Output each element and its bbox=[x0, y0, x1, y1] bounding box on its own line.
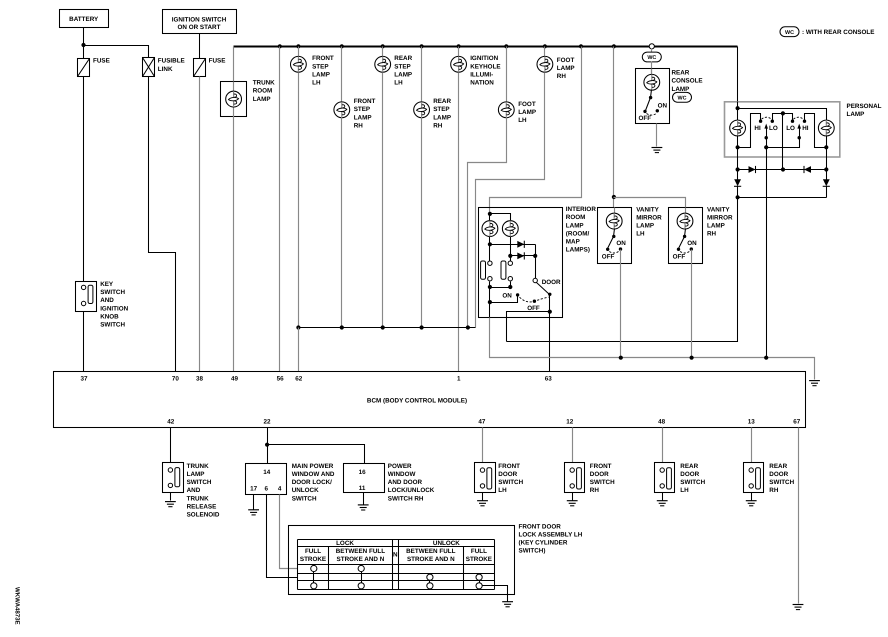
svg-text:WINDOW AND: WINDOW AND bbox=[292, 471, 335, 478]
svg-text:OFF: OFF bbox=[673, 254, 686, 261]
wire pin 17 to ground bbox=[253, 495, 255, 510]
diode D4 bbox=[826, 170, 828, 180]
node bus junction foot lamp LH bbox=[504, 44, 508, 48]
svg-text:NATION: NATION bbox=[470, 80, 494, 87]
wiper right with arrow bbox=[799, 129, 801, 138]
wire personal chain down to interior link bbox=[507, 198, 738, 342]
node bus junction foot lamp RH bbox=[543, 44, 547, 48]
svg-text:6: 6 bbox=[265, 486, 269, 493]
vanity mirror lamp LH box bbox=[598, 208, 632, 264]
svg-text:LAMP: LAMP bbox=[566, 222, 584, 229]
svg-text:LAMP: LAMP bbox=[636, 223, 654, 230]
svg-text:: WITH REAR CONSOLE: : WITH REAR CONSOLE bbox=[802, 29, 874, 36]
foot lamp LH bbox=[506, 47, 508, 118]
wire personal feed bbox=[737, 102, 739, 121]
ground rear door switch LH bbox=[657, 501, 668, 506]
svg-text:WKWA4873E: WKWA4873E bbox=[14, 587, 21, 625]
node bus junction rear step lamp LH bbox=[381, 44, 385, 48]
key cylinder switch table bbox=[298, 539, 495, 541]
wire trunk lamp switch to ground bbox=[170, 493, 172, 501]
svg-text:LO: LO bbox=[786, 125, 795, 132]
node pivot branch bbox=[548, 310, 552, 314]
svg-text:FRONT: FRONT bbox=[354, 98, 376, 105]
contact ON vanity LH bbox=[619, 247, 622, 250]
wire bus drop front step lamp LH bbox=[298, 47, 300, 57]
wire lamp collector rail to BCM pin 62 bbox=[299, 327, 476, 329]
wire BCM pin 22 to main power window switch bbox=[267, 428, 269, 464]
wire BCM to rear door switch LH bbox=[662, 428, 664, 463]
wire pivot to BCM pin 63 bbox=[549, 295, 551, 372]
contact OFF rear console bbox=[643, 110, 646, 113]
svg-text:LH: LH bbox=[636, 231, 645, 238]
wire fuse F1 to key switch, pin 37 bbox=[83, 77, 85, 282]
svg-text:RH: RH bbox=[433, 122, 443, 129]
svg-text:12: 12 bbox=[566, 418, 574, 425]
node ground rail personal wiper bbox=[764, 356, 768, 360]
power window and door lock unlock switch RH bbox=[344, 464, 385, 493]
svg-text:STROKE: STROKE bbox=[466, 556, 492, 563]
svg-text:LH: LH bbox=[498, 487, 507, 494]
svg-text:SWITCH: SWITCH bbox=[498, 479, 523, 486]
lamp front step lamp LH bbox=[298, 57, 300, 73]
wire pin 4 to key cylinder switch bbox=[280, 495, 298, 569]
svg-text:KEYHOLE: KEYHOLE bbox=[470, 63, 500, 70]
wire bus to interior room lamp box bbox=[490, 47, 582, 214]
wire personal LH exit to diode row bbox=[737, 158, 739, 170]
wire rear door switch LH to ground bbox=[662, 493, 664, 501]
map lamp switch 1 bbox=[488, 261, 492, 265]
svg-text:(ROOM/: (ROOM/ bbox=[566, 230, 590, 237]
svg-text:VANITY: VANITY bbox=[636, 206, 659, 213]
svg-text:N: N bbox=[393, 552, 398, 559]
svg-text:STEP: STEP bbox=[433, 106, 449, 113]
wire to ON contact bbox=[490, 296, 518, 303]
wire foot lamp RH to rail end bbox=[476, 73, 545, 328]
svg-text:OFF: OFF bbox=[602, 254, 615, 261]
node bus junction ignition keyhole illumination lamp bbox=[457, 44, 461, 48]
svg-text:LINK: LINK bbox=[158, 66, 173, 73]
svg-text:37: 37 bbox=[80, 375, 88, 382]
wire front step lamp LH to rail bbox=[298, 73, 300, 328]
rotary switch pivot interior bbox=[548, 293, 551, 296]
svg-text:70: 70 bbox=[172, 375, 180, 382]
wire LH staircase to HI contact bbox=[738, 114, 761, 148]
svg-text:LOCK: LOCK bbox=[336, 540, 354, 547]
node interior feed junction bbox=[489, 214, 491, 221]
interior room lamp bulb 2 bbox=[502, 221, 518, 237]
svg-text:LH: LH bbox=[680, 487, 689, 494]
rear door switch LH bbox=[655, 463, 675, 493]
wire pivot branch to personal chain bbox=[507, 312, 550, 342]
ground BCM pin 67 bbox=[793, 605, 804, 610]
svg-text:WC: WC bbox=[678, 96, 687, 102]
wire bus drop ignition keyhole illumination lamp bbox=[458, 47, 460, 57]
trunk lamp switch and trunk release solenoid bbox=[163, 463, 184, 493]
switch lever interior bbox=[537, 283, 550, 295]
node bus connector with rear console bbox=[649, 44, 654, 49]
map lamp switch 2 bbox=[508, 261, 512, 265]
node rail junction front step lamp RH bbox=[340, 325, 344, 329]
diode D3 bbox=[737, 170, 739, 180]
wire bus to vanity mirror lamp LH bbox=[613, 47, 615, 208]
svg-text:VANITY: VANITY bbox=[707, 206, 730, 213]
svg-text:13: 13 bbox=[748, 418, 756, 425]
svg-text:FRONT: FRONT bbox=[498, 463, 520, 470]
node rail junction foot lamp LH bbox=[466, 325, 470, 329]
svg-text:LAMP: LAMP bbox=[847, 111, 865, 118]
svg-text:4: 4 bbox=[278, 486, 282, 493]
svg-text:WC: WC bbox=[647, 55, 656, 61]
svg-text:LH: LH bbox=[312, 80, 321, 87]
node personal lamp LH bottom bbox=[737, 136, 739, 158]
wire bus to trunk room lamp bbox=[233, 47, 235, 82]
node bus junction rear step lamp RH bbox=[420, 44, 424, 48]
wire key switch to BCM pin 37 bbox=[83, 312, 85, 372]
svg-text:OFF: OFF bbox=[639, 115, 652, 122]
svg-text:FRONT: FRONT bbox=[590, 463, 612, 470]
svg-text:LAMP: LAMP bbox=[433, 114, 451, 121]
svg-text:LAMP: LAMP bbox=[672, 86, 690, 93]
svg-text:SWITCH: SWITCH bbox=[292, 495, 317, 502]
wire diode row bbox=[738, 169, 827, 171]
svg-text:STROKE: STROKE bbox=[300, 556, 326, 563]
svg-text:DOOR LOCK/: DOOR LOCK/ bbox=[292, 479, 332, 486]
svg-text:42: 42 bbox=[167, 418, 175, 425]
wire key cylinder to ground bbox=[483, 586, 508, 602]
svg-text:ILLUMI-: ILLUMI- bbox=[470, 71, 493, 78]
svg-text:SOLENOID: SOLENOID bbox=[187, 512, 220, 519]
svg-text:SWITCH: SWITCH bbox=[590, 479, 615, 486]
svg-text:FULL: FULL bbox=[305, 548, 321, 555]
svg-text:HI: HI bbox=[754, 125, 761, 132]
wire rear step lamp LH to rail bbox=[382, 73, 384, 328]
wire interior top to map lamp bbox=[490, 214, 511, 221]
main power window and door lock unlock switch bbox=[246, 464, 287, 495]
svg-text:LAMP: LAMP bbox=[557, 65, 575, 72]
svg-text:HI: HI bbox=[802, 125, 809, 132]
node rail junction rear step lamp LH bbox=[381, 325, 385, 329]
node rail junction front step lamp LH bbox=[296, 325, 300, 329]
wire vanity LH switch output to ground rail bbox=[620, 250, 622, 358]
wire fuse F2 to BCM pin 38 bbox=[199, 77, 201, 372]
svg-text:KEY: KEY bbox=[100, 281, 114, 288]
wire pin 6 to key cylinder switch bbox=[267, 495, 298, 578]
svg-text:LAMP: LAMP bbox=[354, 114, 372, 121]
dashed throw arc interior bbox=[520, 297, 549, 302]
diode D6 bbox=[517, 253, 524, 260]
node ground rail vanity LH bbox=[619, 356, 623, 360]
svg-text:AND: AND bbox=[100, 297, 114, 304]
lamp front step lamp RH bbox=[341, 102, 343, 118]
svg-text:FOOT: FOOT bbox=[557, 57, 575, 64]
wire branch to power window switch RH bbox=[268, 445, 365, 464]
svg-text:62: 62 bbox=[295, 375, 303, 382]
wire connector to WC oval bbox=[651, 49, 653, 53]
vanity mirror lamp RH bulb bbox=[685, 208, 687, 214]
svg-text:22: 22 bbox=[263, 418, 271, 425]
personal lamp box bbox=[725, 102, 840, 157]
front door lock assembly box bbox=[289, 526, 515, 595]
key cylinder contacts lock between bbox=[358, 565, 364, 571]
wire personal RH exit to diode row bbox=[826, 158, 828, 170]
svg-text:UNLOCK: UNLOCK bbox=[292, 487, 319, 494]
svg-text:REAR: REAR bbox=[672, 70, 690, 77]
svg-text:LH: LH bbox=[394, 80, 403, 87]
wire junction to fusible link bbox=[84, 46, 149, 58]
node bus junction vanity mirror feed bbox=[612, 44, 616, 48]
vanity mirror lamp LH bulb bbox=[614, 208, 616, 214]
svg-text:ROOM: ROOM bbox=[253, 88, 273, 95]
wire rear console switch to ground bbox=[656, 124, 658, 147]
svg-text:MIRROR: MIRROR bbox=[636, 215, 662, 222]
personal lamp bulb RH bbox=[818, 120, 834, 136]
battery B1 bbox=[60, 10, 109, 28]
node bus junction front step lamp RH bbox=[340, 44, 344, 48]
ignition switch box bbox=[163, 10, 237, 34]
wire bus to BCM pin 56 bbox=[279, 47, 281, 372]
svg-text:RH: RH bbox=[557, 73, 567, 80]
wire BCM to rear door switch RH bbox=[751, 428, 753, 463]
interior room lamp box bbox=[479, 208, 563, 318]
wire BCM to front door switch RH bbox=[572, 428, 574, 463]
svg-text:WINDOW: WINDOW bbox=[388, 471, 416, 478]
key cylinder contacts unlock between bbox=[427, 574, 433, 580]
wire battery to junction bbox=[83, 28, 85, 59]
connector WC oval bbox=[642, 52, 661, 62]
wire bulb2 to diode row 2 bbox=[510, 237, 512, 262]
dashed arc right switch bbox=[793, 117, 803, 119]
wire BCM pin 42 to trunk lamp switch bbox=[170, 428, 172, 463]
svg-text:LAMP: LAMP bbox=[707, 223, 725, 230]
svg-text:67: 67 bbox=[793, 418, 801, 425]
rear door switch RH bbox=[744, 463, 764, 493]
svg-text:38: 38 bbox=[196, 375, 204, 382]
ground main power window switch bbox=[248, 510, 259, 515]
svg-text:SWITCH: SWITCH bbox=[100, 289, 125, 296]
contact OFF vanity RH bbox=[677, 248, 680, 251]
svg-text:LO: LO bbox=[769, 125, 778, 132]
svg-text:(KEY CYLINDER: (KEY CYLINDER bbox=[519, 540, 568, 547]
svg-text:TRUNK: TRUNK bbox=[187, 495, 209, 502]
lamp rear step lamp RH bbox=[421, 102, 423, 118]
wire center to diode row bbox=[782, 114, 784, 170]
svg-text:STEP: STEP bbox=[312, 63, 328, 70]
interior room lamp bulb 1 bbox=[482, 221, 498, 237]
svg-text:BATTERY: BATTERY bbox=[69, 16, 99, 23]
svg-text:ON OR START: ON OR START bbox=[178, 24, 221, 31]
svg-text:DOOR: DOOR bbox=[590, 471, 609, 478]
contact LO left bbox=[771, 120, 774, 123]
ground key cylinder switch bbox=[502, 602, 513, 607]
node diode join interior bbox=[533, 254, 537, 258]
wire front step lamp RH to rail bbox=[341, 118, 343, 328]
wire ignition keyhole illumination to BCM pin 1 bbox=[458, 73, 460, 372]
lamp ignition keyhole illumination lamp bbox=[458, 57, 460, 73]
dashed throw arc vanity RH bbox=[680, 251, 690, 253]
dashed throw arc vanity LH bbox=[609, 251, 619, 253]
svg-text:CONSOLE: CONSOLE bbox=[672, 78, 703, 85]
wire BCM pin 67 to ground bbox=[798, 428, 800, 604]
svg-text:STROKE AND N: STROKE AND N bbox=[407, 556, 455, 563]
wire interior switch chain to ground rail bbox=[489, 303, 491, 318]
svg-text:KNOB: KNOB bbox=[100, 313, 119, 320]
wire bulb1 to diode row 1 bbox=[489, 237, 491, 262]
ground trunk lamp switch bbox=[165, 502, 176, 507]
wire foot lamp LH to rail bbox=[468, 118, 507, 328]
svg-text:MAP: MAP bbox=[566, 239, 580, 246]
svg-text:FUSE: FUSE bbox=[209, 57, 226, 64]
wire bulb to pivot LH bbox=[614, 229, 615, 237]
svg-text:17: 17 bbox=[250, 486, 258, 493]
svg-text:63: 63 bbox=[545, 375, 553, 382]
legend WC oval bbox=[780, 27, 799, 37]
svg-text:SWITCH: SWITCH bbox=[680, 479, 705, 486]
svg-text:AND DOOR: AND DOOR bbox=[388, 479, 423, 486]
node bus junction interior room lamp bbox=[579, 44, 583, 48]
node center junction bbox=[781, 111, 785, 115]
contact ON rear console bbox=[656, 109, 659, 112]
svg-text:MIRROR: MIRROR bbox=[707, 215, 733, 222]
wire pin 11 to ground bbox=[363, 493, 365, 505]
svg-text:BETWEEN FULL: BETWEEN FULL bbox=[336, 548, 385, 555]
wire front door switch RH to ground bbox=[572, 493, 574, 501]
ground power window switch RH bbox=[358, 505, 369, 510]
svg-text:LAMP: LAMP bbox=[394, 71, 412, 78]
svg-text:BCM (BODY CONTROL MODULE): BCM (BODY CONTROL MODULE) bbox=[367, 397, 467, 404]
rear console lamp box bbox=[636, 69, 670, 124]
wire bus drop front step lamp RH bbox=[341, 47, 343, 102]
svg-text:FRONT: FRONT bbox=[312, 55, 334, 62]
rear console lamp L2 bbox=[651, 69, 653, 75]
fusible link FL bbox=[143, 58, 155, 77]
svg-text:LH: LH bbox=[518, 117, 527, 124]
wire body ground rail bbox=[621, 358, 815, 380]
switch lever vanity LH bbox=[608, 237, 614, 249]
svg-text:LAMP: LAMP bbox=[253, 96, 271, 103]
switch lever vanity RH bbox=[679, 237, 685, 249]
wire RH staircase to HI contact bbox=[805, 114, 827, 148]
svg-text:LOCK ASSEMBLY LH: LOCK ASSEMBLY LH bbox=[519, 532, 583, 539]
svg-text:SWITCH: SWITCH bbox=[769, 479, 794, 486]
svg-text:11: 11 bbox=[359, 485, 366, 492]
svg-text:UNLOCK: UNLOCK bbox=[433, 540, 460, 547]
contact OFF vanity LH bbox=[606, 248, 609, 251]
svg-text:PERSONAL: PERSONAL bbox=[847, 103, 882, 110]
contact OFF interior bbox=[533, 300, 536, 303]
switch lever rear console bbox=[646, 98, 651, 111]
wiper left with arrow bbox=[766, 129, 768, 138]
svg-text:AND: AND bbox=[187, 487, 201, 494]
svg-text:48: 48 bbox=[658, 418, 666, 425]
svg-text:FRONT DOOR: FRONT DOOR bbox=[519, 523, 562, 530]
wire bus drop rear step lamp LH bbox=[382, 47, 384, 57]
contact LO right bbox=[791, 120, 794, 123]
svg-text:FULL: FULL bbox=[471, 548, 487, 555]
front door switch LH bbox=[475, 463, 496, 493]
svg-text:TRUNK: TRUNK bbox=[187, 463, 209, 470]
svg-text:SWITCH): SWITCH) bbox=[519, 548, 546, 555]
contact DOOR interior bbox=[533, 278, 537, 282]
svg-text:TRUNK: TRUNK bbox=[253, 80, 275, 87]
svg-text:STEP: STEP bbox=[394, 63, 410, 70]
front door switch RH bbox=[565, 463, 585, 493]
svg-text:16: 16 bbox=[359, 469, 367, 476]
wire bulb to pivot RH bbox=[685, 229, 686, 237]
wire bus to personal lamp bbox=[737, 47, 739, 102]
svg-text:STROKE AND N: STROKE AND N bbox=[337, 556, 385, 563]
ground rear console lamp bbox=[652, 148, 663, 153]
svg-text:47: 47 bbox=[478, 418, 486, 425]
svg-text:RH: RH bbox=[769, 487, 779, 494]
wire trunk room lamp to BCM pin 49 bbox=[233, 117, 235, 372]
wire front door switch LH to ground bbox=[482, 493, 484, 501]
wire diode join bbox=[738, 197, 827, 199]
svg-text:SWITCH: SWITCH bbox=[187, 479, 212, 486]
node personal lamp RH bottom bbox=[826, 136, 828, 158]
trunk room lamp L1 bbox=[221, 82, 247, 117]
node vanity feed split bbox=[612, 195, 616, 199]
svg-text:ROOM: ROOM bbox=[566, 214, 586, 221]
BCM body control module bbox=[54, 372, 806, 428]
svg-text:LAMP: LAMP bbox=[187, 471, 205, 478]
wire vanity RH switch output to ground rail bbox=[691, 250, 693, 358]
svg-text:LAMPS): LAMPS) bbox=[566, 247, 590, 254]
wire personal top rail bbox=[738, 109, 827, 121]
contact HI left bbox=[759, 120, 762, 123]
ground front door switch LH bbox=[477, 501, 488, 506]
key cylinder contacts lock full stroke bbox=[311, 565, 317, 571]
svg-text:ON: ON bbox=[658, 102, 668, 109]
wire bus drop rear step lamp RH bbox=[421, 47, 423, 102]
diode D2 bbox=[804, 166, 811, 173]
svg-text:INTERIOR: INTERIOR bbox=[566, 206, 597, 213]
node battery junction bbox=[81, 43, 85, 47]
svg-text:14: 14 bbox=[263, 469, 271, 476]
node bus junction front step lamp LH bbox=[296, 44, 300, 48]
node interior ON junction bbox=[488, 300, 492, 304]
ground rear door switch RH bbox=[746, 501, 757, 506]
ground front door switch RH bbox=[567, 501, 578, 506]
wire rear door switch RH to ground bbox=[751, 493, 753, 501]
svg-text:REAR: REAR bbox=[680, 463, 698, 470]
svg-text:1: 1 bbox=[457, 375, 461, 382]
wire WC oval to rear console lamp box bbox=[651, 62, 653, 76]
key switch and ignition knob switch S1 bbox=[76, 282, 97, 312]
svg-text:ON: ON bbox=[616, 240, 626, 247]
wire LO right to center bbox=[783, 114, 793, 122]
svg-text:IGNITION SWITCH: IGNITION SWITCH bbox=[172, 16, 227, 23]
svg-text:LAMP: LAMP bbox=[312, 71, 330, 78]
svg-text:STEP: STEP bbox=[354, 106, 370, 113]
personal lamp bulb LH bbox=[730, 120, 746, 136]
vanity mirror lamp RH box bbox=[669, 208, 703, 264]
svg-text:BETWEEN FULL: BETWEEN FULL bbox=[406, 548, 455, 555]
node rail junction rear step lamp RH bbox=[420, 325, 424, 329]
fuse F1 bbox=[78, 59, 90, 77]
foot lamp RH bbox=[544, 47, 546, 73]
fuse F2 bbox=[194, 59, 206, 77]
key cylinder contacts unlock full stroke bbox=[476, 574, 482, 580]
contact HI right bbox=[803, 120, 806, 123]
svg-text:56: 56 bbox=[277, 375, 285, 382]
lamp rear step lamp LH bbox=[382, 57, 384, 73]
svg-text:RELEASE: RELEASE bbox=[187, 503, 217, 510]
svg-text:ON: ON bbox=[687, 240, 697, 247]
dashed arc left switch bbox=[762, 117, 772, 119]
wire BCM to front door switch LH bbox=[482, 428, 484, 463]
wire switch bottoms join bbox=[489, 282, 491, 303]
wire fusible link to BCM pin 70 bbox=[149, 77, 176, 372]
